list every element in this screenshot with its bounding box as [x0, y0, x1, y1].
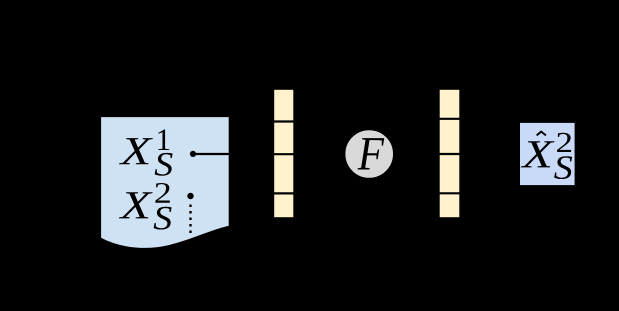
document shape X_S (light blue, wavy bottom): [101, 117, 230, 249]
encoder layer bar 1 (4 cells): [273, 89, 294, 218]
output box X_hat_S^2: [519, 122, 575, 185]
function F circle: [345, 130, 394, 179]
label X_S^1: [119, 130, 173, 176]
decoder layer bar 2 (4 cells): [439, 89, 460, 218]
wire from X_S^1 dot to encoder bar: [193, 153, 273, 155]
label X_S^2: [119, 183, 172, 230]
node dot on X_S^1: [190, 151, 196, 157]
dotted wire below X_S^2 dot: [189, 205, 191, 237]
node dot on X_S^2: [187, 193, 193, 199]
